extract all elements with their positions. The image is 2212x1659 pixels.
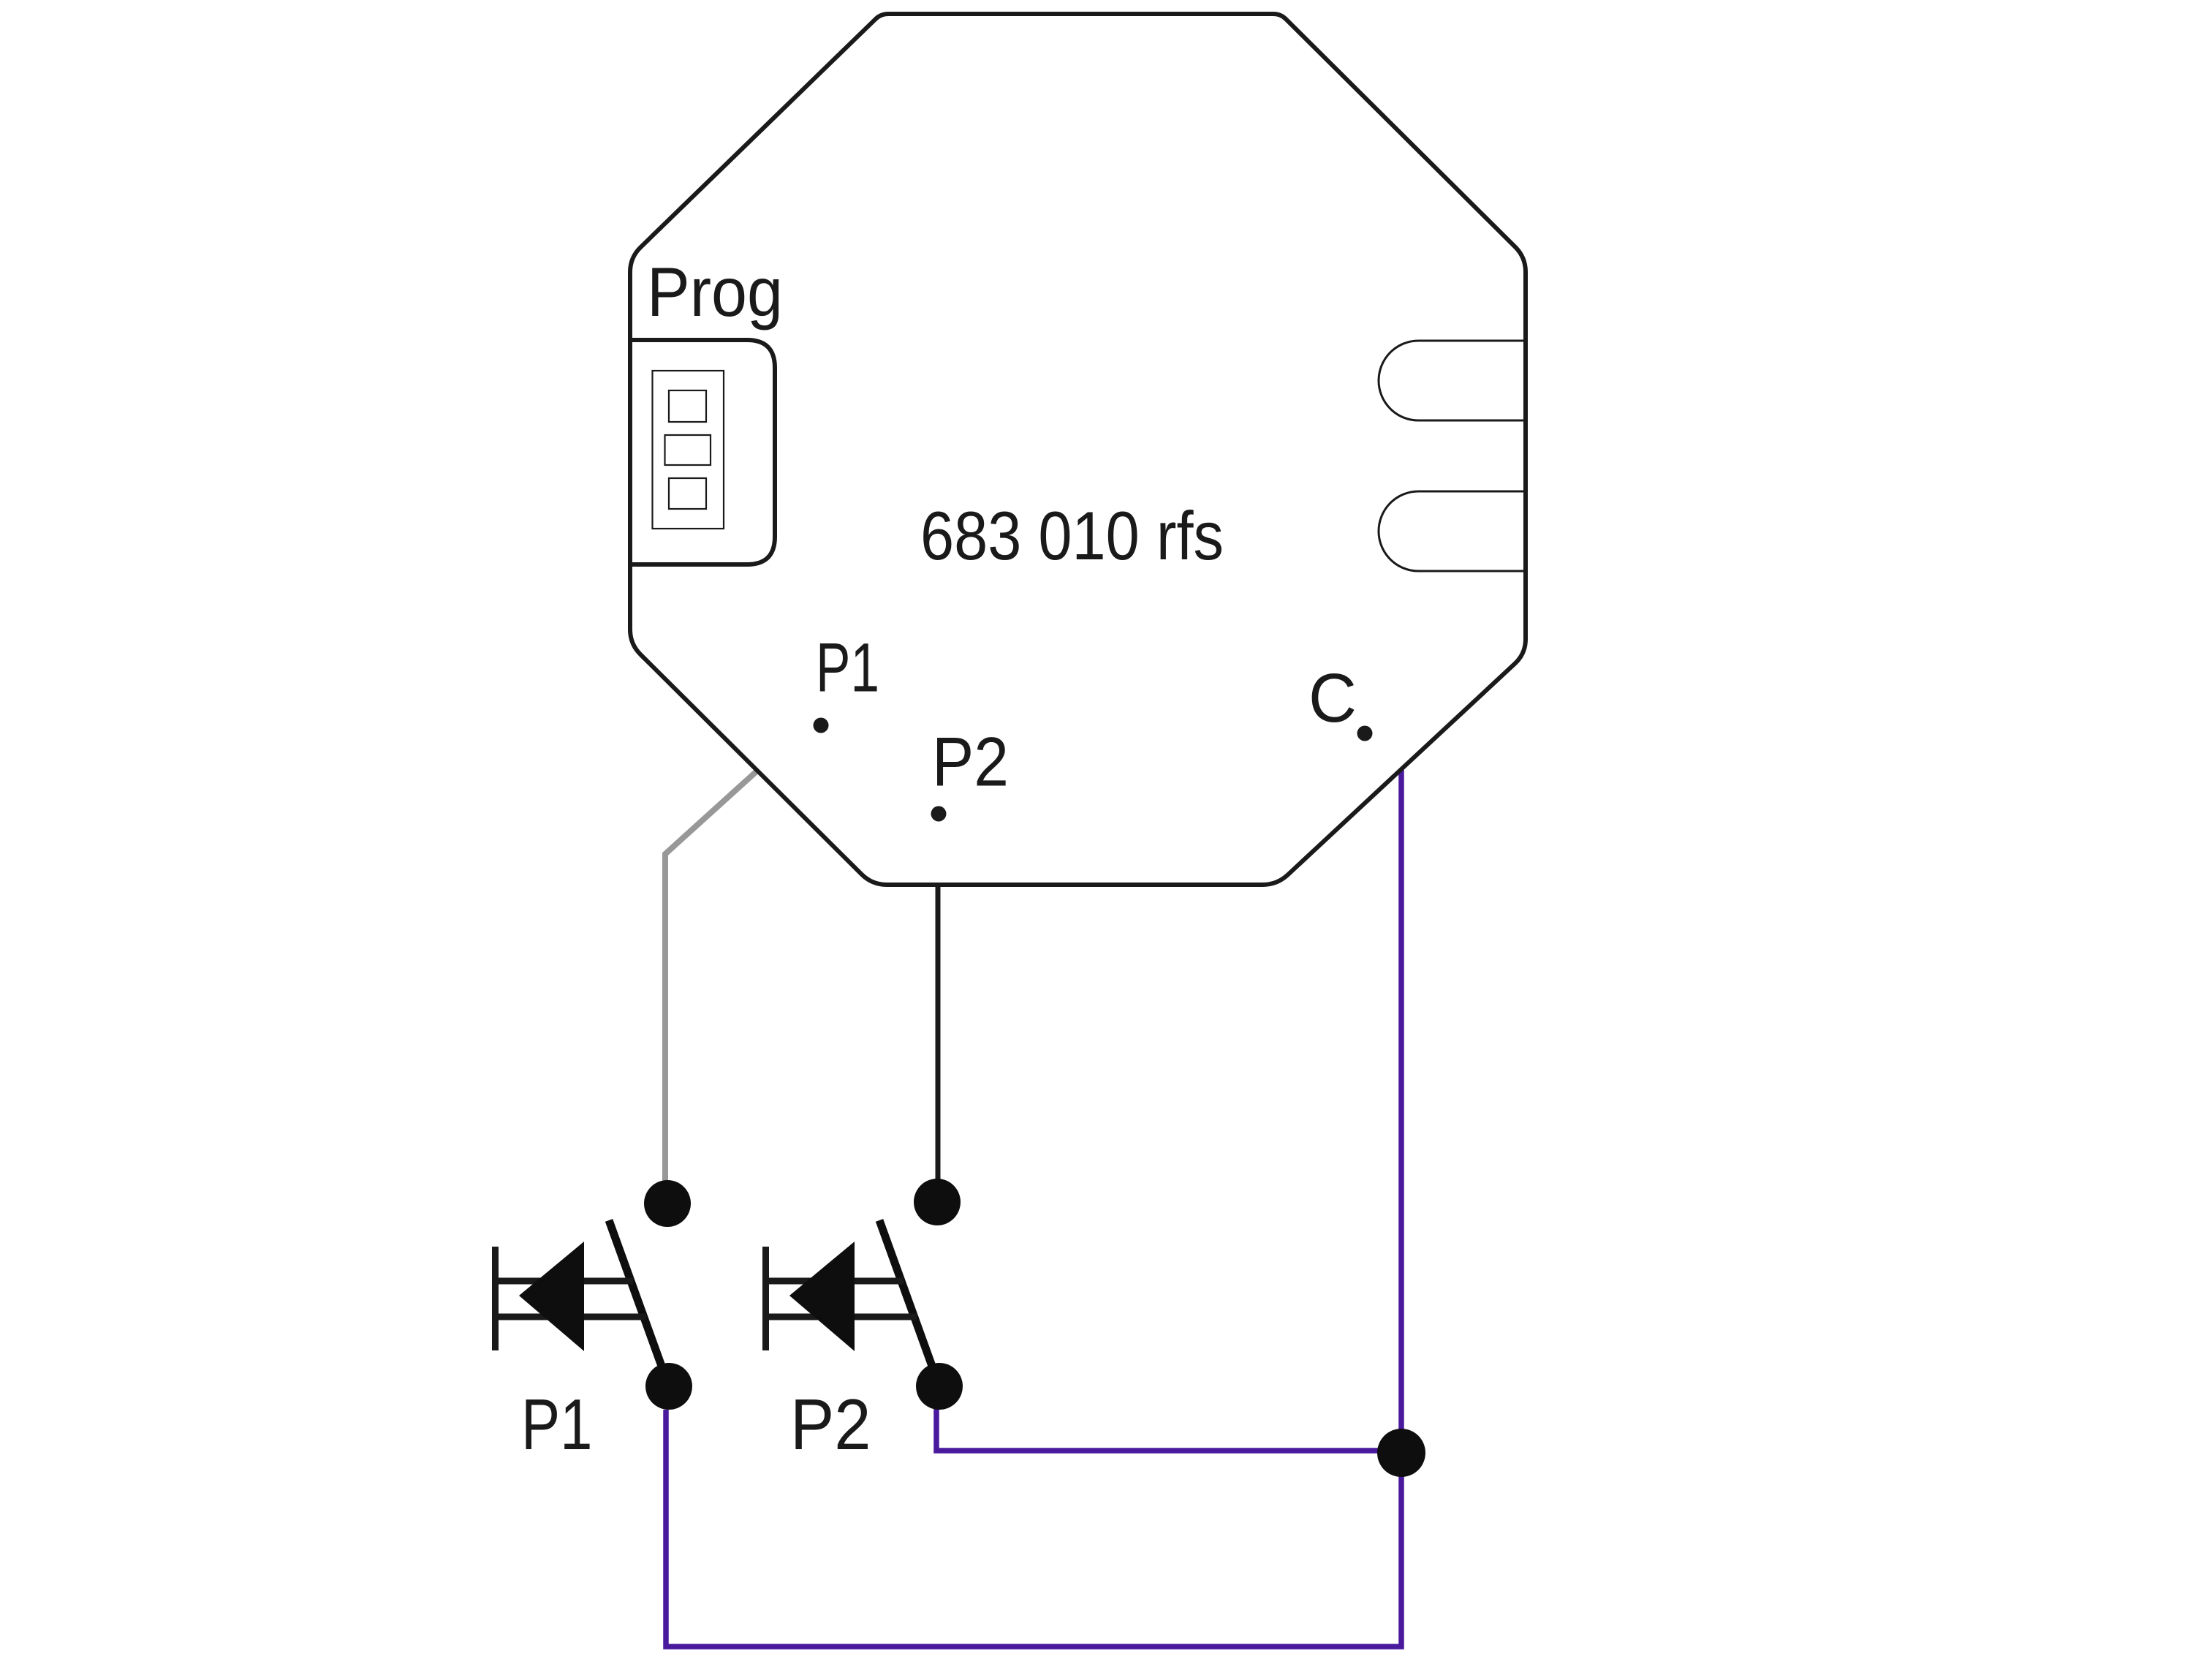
terminal dot P1 (814, 718, 829, 733)
pushbutton P1 upper rail (496, 1278, 634, 1285)
pushbutton P2 lamp cathode bar (762, 1247, 769, 1350)
pushbutton P2 bottom contact dot (916, 1363, 963, 1410)
terminal dot P2 (931, 806, 947, 822)
pushbutton P1 lever (609, 1220, 669, 1386)
pushbutton P2 upper rail (766, 1278, 904, 1285)
Prog pin square 2 (665, 435, 711, 465)
svg-text:Prog: Prog (647, 254, 783, 331)
pushbutton P2 lower rail (766, 1314, 917, 1320)
terminal dot C (1357, 726, 1373, 741)
svg-text:683 010 rfs: 683 010 rfs (920, 497, 1224, 574)
pushbutton P1 lamp triangle (519, 1242, 584, 1351)
pushbutton P1 bottom contact dot (645, 1363, 692, 1410)
svg-text:P1: P1 (816, 630, 879, 707)
pushbutton P2 lever (879, 1220, 939, 1386)
pushbutton P1 top contact dot (644, 1180, 691, 1227)
svg-text:P2: P2 (932, 724, 1009, 801)
svg-text:C: C (1308, 660, 1357, 737)
pushbutton P2 top contact dot (914, 1179, 961, 1225)
Prog connector inner frame (653, 371, 724, 529)
Prog pin square 3 (669, 478, 706, 509)
Prog connector box (630, 340, 775, 564)
junction node dot (1377, 1429, 1425, 1477)
wire purple branch from button P2 to junction (936, 1407, 1401, 1451)
receiver module 683 010 rfs octagon body (630, 14, 1526, 885)
wire gray P1 from module edge to button P1 (665, 771, 757, 1206)
svg-text:P2: P2 (790, 1384, 871, 1465)
svg-text:P1: P1 (521, 1384, 593, 1465)
pushbutton P1 lower rail (496, 1314, 647, 1320)
wire black P2 from module bottom to button P2 (936, 886, 941, 1205)
antenna notch upper (1379, 341, 1526, 420)
pushbutton P1 lamp cathode bar (492, 1247, 499, 1350)
Prog pin square 1 (669, 390, 706, 422)
pushbutton P2 lamp triangle (789, 1242, 855, 1351)
antenna notch lower (1379, 491, 1526, 571)
wire purple C run: from module edge down, along bottom, up to button P1 (666, 770, 1401, 1647)
